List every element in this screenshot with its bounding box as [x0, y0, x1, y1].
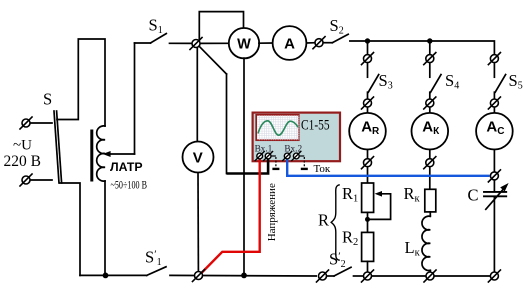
svg-text:S: S — [43, 90, 52, 109]
svg-text:ЛАТР: ЛАТР — [110, 160, 143, 174]
svg-text:~U: ~U — [13, 138, 32, 154]
svg-text:220 В: 220 В — [4, 153, 41, 170]
svg-text:R: R — [318, 211, 329, 230]
svg-text:W: W — [237, 37, 251, 53]
svg-text:C: C — [468, 186, 479, 205]
svg-text:С1-55: С1-55 — [301, 118, 330, 134]
svg-text:Напряжение: Напряжение — [266, 183, 278, 241]
svg-text:Ток: Ток — [314, 163, 331, 175]
svg-text:V: V — [193, 149, 203, 166]
svg-text:~50÷100 В: ~50÷100 В — [111, 178, 148, 192]
svg-text:A: A — [284, 36, 295, 53]
